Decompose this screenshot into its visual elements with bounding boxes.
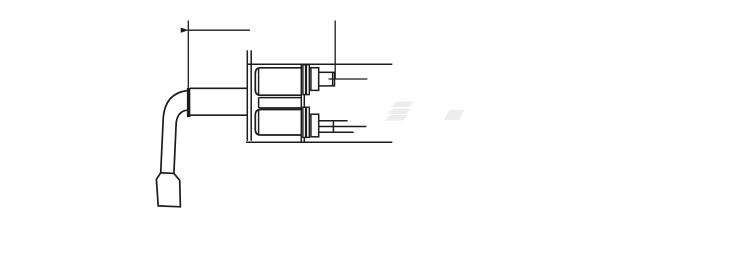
dimension 111 line <box>188 29 250 31</box>
lever elbow inner curve <box>174 110 187 173</box>
lever elbow outer curve <box>161 91 187 173</box>
stud M10 bottom terminal lines <box>319 121 367 133</box>
lever grip side view <box>156 173 180 207</box>
mounting plate side view <box>247 50 251 141</box>
top housing seam <box>258 69 260 94</box>
bottom housing seam <box>258 111 260 135</box>
dimension 111 extension line right <box>334 21 336 80</box>
top housing <box>255 68 301 95</box>
lever shaft end cap <box>187 88 190 117</box>
bottom housing <box>255 110 301 136</box>
body right face <box>301 64 304 142</box>
stud M10 top terminal <box>319 72 335 86</box>
hex nut bottom terminal <box>311 114 319 137</box>
body bottom outline / extent line <box>246 141 392 143</box>
leader line from top stud center <box>329 78 368 80</box>
dimension 111 extension line left <box>187 21 189 88</box>
watermark chevron stripes <box>385 102 464 121</box>
middle waist band <box>259 98 302 108</box>
washer stack top terminal <box>303 65 309 95</box>
hex nut top terminal <box>311 68 319 91</box>
stud end cap top <box>332 72 334 86</box>
washer stack bottom terminal <box>303 107 309 137</box>
lever shaft side view <box>190 88 247 115</box>
body top outline / extent line <box>247 63 392 65</box>
